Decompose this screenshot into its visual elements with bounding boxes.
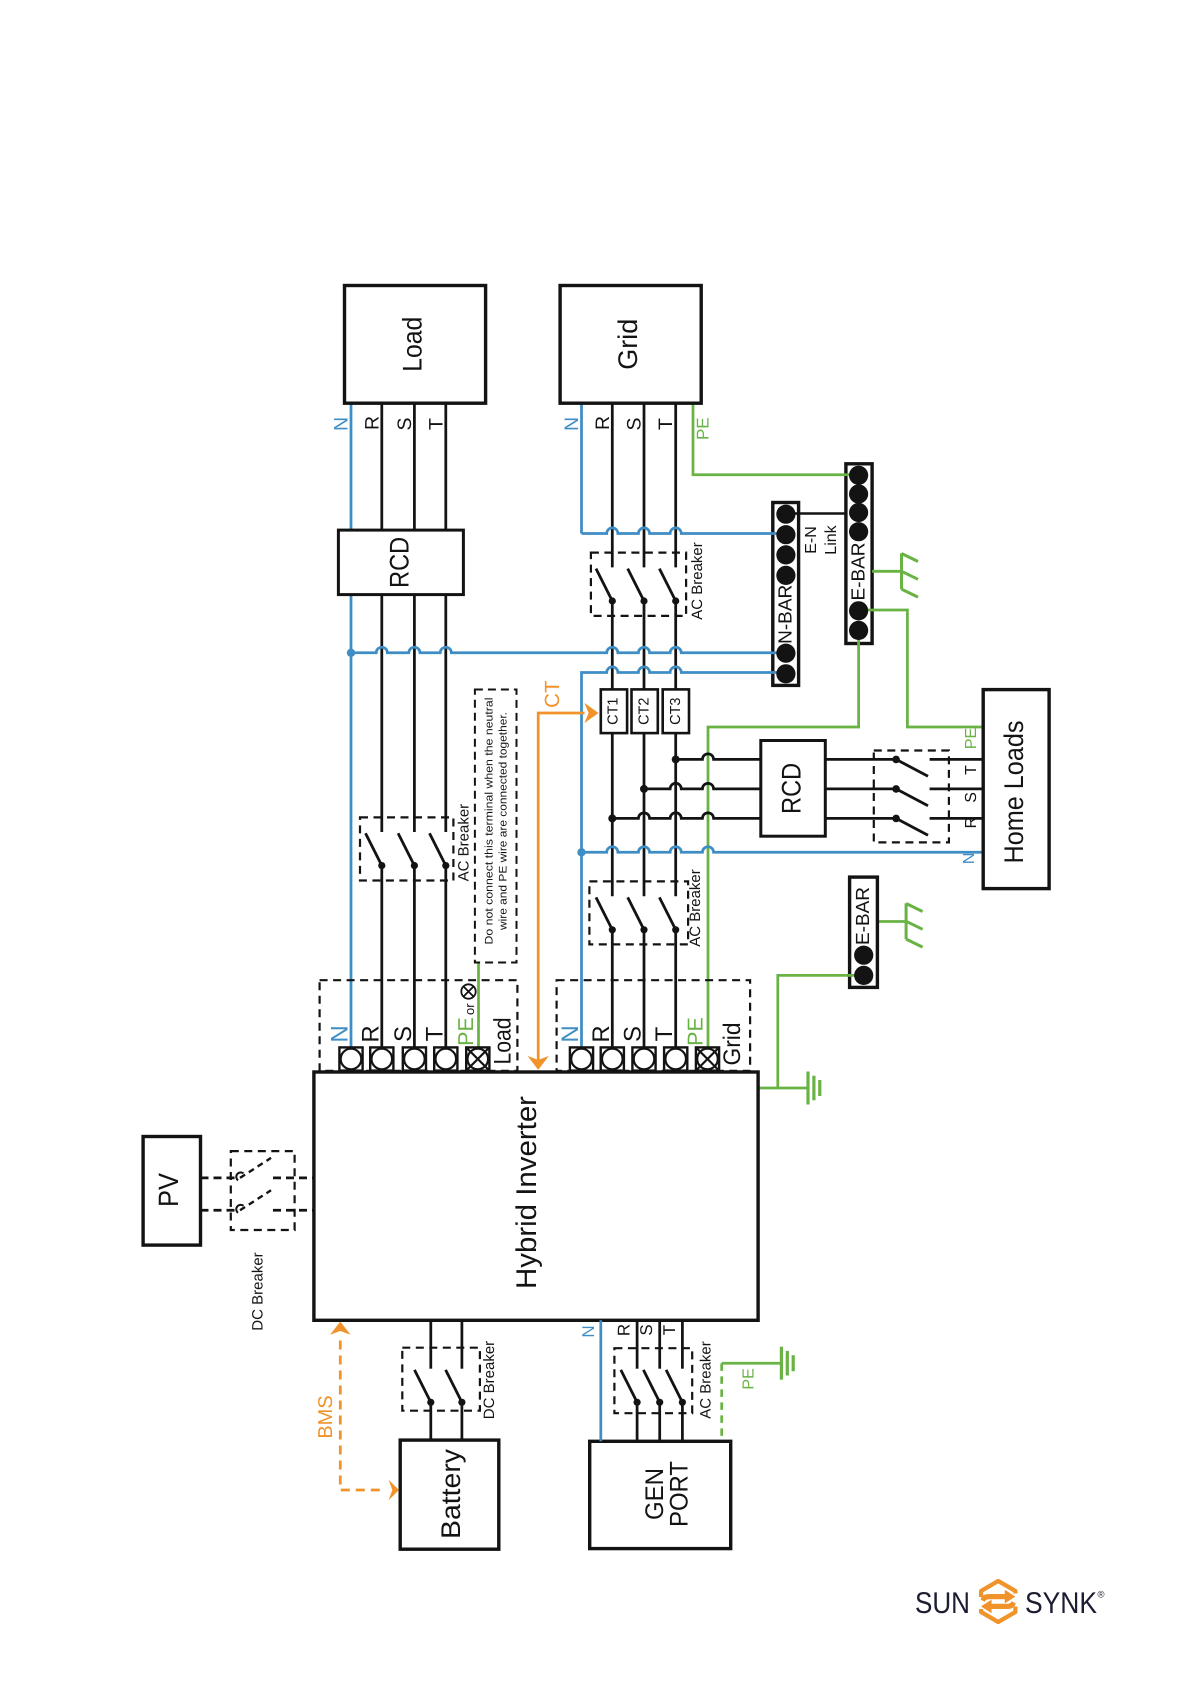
svg-text:DC Breaker: DC Breaker (250, 1252, 267, 1330)
note box (dashed) (475, 690, 517, 963)
svg-text:Do not connect this terminal w: Do not connect this terminal when the ne… (483, 698, 495, 945)
svg-text:T: T (421, 1026, 448, 1041)
wire Grid R (Grid box to AC breaker) (611, 403, 614, 567)
E-BAR 2 dot 1 (854, 946, 873, 965)
svg-text:T: T (651, 1026, 678, 1041)
svg-text:Home Loads: Home Loads (999, 721, 1029, 864)
E-BAR dot 6 (849, 621, 868, 640)
svg-text:PE: PE (454, 1017, 478, 1046)
GEN PORT box (590, 1441, 731, 1548)
breaker blade Load T (430, 833, 446, 865)
breaker blade Home Loads S (896, 789, 928, 806)
wire GEN S upper (658, 1320, 661, 1368)
wire N Load to N-BAR (blue, hops over six phase wires) (351, 647, 786, 653)
E-BAR dot 3 (849, 503, 868, 522)
svg-text:CT1: CT1 (605, 697, 621, 724)
E-BAR 2 dot 2 (854, 966, 873, 985)
AC breaker box Grid lower (589, 881, 688, 944)
CT1 box (601, 689, 627, 733)
wire Battery + upper (429, 1320, 432, 1368)
svg-text:S: S (963, 792, 980, 803)
terminal Grid R (601, 1047, 624, 1070)
wire Load T (AC breaker to inverter Load-T terminal) (444, 866, 447, 1048)
svg-text:T: T (655, 418, 677, 430)
svg-text:Load: Load (398, 317, 428, 372)
breaker pivot Home Loads S (892, 785, 900, 793)
wire Grid T (Grid box to AC breaker) (674, 403, 677, 567)
N-BAR dot 5 (776, 644, 795, 663)
wire Battery - lower (461, 1402, 464, 1440)
terminal Grid S (632, 1047, 655, 1070)
AC breaker blade GEN R (621, 1370, 637, 1402)
wire PE E-BAR 1 to earth (green) (872, 570, 901, 573)
wire Grid S (Grid box to AC breaker) (643, 403, 646, 567)
wire PV - (dashed) (201, 1209, 240, 1212)
svg-text:T: T (425, 418, 447, 430)
wire Battery - upper (461, 1320, 464, 1368)
breaker blade Grid S (lower AC breaker) (628, 897, 644, 929)
logo hexagon with sync arrows (981, 1581, 1015, 1622)
svg-text:Link: Link (823, 524, 840, 554)
svg-text:R: R (357, 1025, 384, 1042)
svg-text:PE: PE (741, 1368, 758, 1389)
junction Grid S tap (640, 785, 648, 793)
DC breaker blade PV + (240, 1158, 271, 1178)
wire Grid N (blue, Grid box down) (580, 403, 583, 533)
junction Grid T tap (672, 755, 680, 763)
svg-text:AC Breaker: AC Breaker (689, 542, 706, 620)
svg-text:N: N (331, 417, 353, 431)
svg-text:RCD: RCD (777, 763, 807, 814)
wire stub PE into E-BAR 2 (848, 974, 864, 977)
wire PE E-BAR 2 to earth (green) (877, 920, 905, 923)
terminal Load S (403, 1047, 426, 1070)
svg-text:S: S (624, 417, 646, 430)
CT2 box (632, 689, 658, 733)
junction blue N Load (347, 649, 355, 657)
svg-text:RCD: RCD (385, 537, 415, 588)
E-BAR dot 4 (849, 522, 868, 541)
breaker blade Grid T (lower AC breaker) (659, 897, 675, 929)
breaker blade Grid R (upper AC breaker) (596, 569, 612, 601)
E-BAR dot 2 (849, 484, 868, 503)
AC breaker blade GEN S (643, 1370, 659, 1402)
DC breaker blade Battery + (415, 1370, 431, 1402)
wire PE inverter net to E-BAR 2 (green) (778, 975, 864, 1088)
svg-text:PV: PV (153, 1173, 184, 1207)
wire stub PE out of E-BAR dot5 (859, 609, 874, 612)
wire Grid T (lower AC breaker to inverter Grid-T terminal) (674, 930, 677, 1048)
wire Load S (Load box through RCD to AC breaker) (413, 403, 416, 832)
wire Home Loads R out (930, 817, 984, 820)
E-BAR terminal bar 2 (850, 877, 878, 987)
wire Grid R (breaker through CT1 down to lower AC breaker) (611, 601, 614, 896)
RCD 1 (Load side) (338, 530, 463, 595)
Home Loads box (983, 690, 1049, 889)
wire PV + (dashed) (201, 1177, 240, 1180)
svg-text:E-BAR: E-BAR (848, 542, 869, 600)
BMS arrowhead up (dart) (330, 1322, 351, 1335)
wire Load S (AC breaker to inverter Load-S terminal) (413, 866, 416, 1048)
svg-text:®: ® (1098, 1590, 1105, 1601)
earth ground at inverter (806, 1072, 809, 1105)
wire PE inverter to earth (green) (758, 1087, 807, 1090)
svg-text:Load: Load (489, 1018, 516, 1065)
svg-text:PE: PE (693, 417, 712, 440)
svg-text:T: T (963, 765, 980, 775)
wire tap R to RCD (hops over S T PE) (612, 813, 896, 819)
wire GEN PE (green dashed) (720, 1363, 723, 1441)
terminal Load T (434, 1047, 457, 1070)
Load box (345, 286, 486, 404)
svg-text:N-BAR: N-BAR (775, 585, 796, 644)
svg-text:S: S (637, 1324, 656, 1335)
svg-text:N: N (579, 1325, 598, 1337)
wire Load N (blue neutral, Load box to inverter Load-N terminal) (350, 403, 353, 1047)
breaker pivot Home Loads R (892, 815, 900, 823)
breaker blade Home Loads T (896, 759, 928, 776)
svg-text:S: S (390, 1026, 417, 1042)
terminal Grid T (664, 1047, 687, 1070)
svg-text:AC Breaker: AC Breaker (456, 804, 473, 882)
wire N to Home Loads (blue, hops over R S T and PE) (582, 847, 984, 853)
wire stub PE Grid into E-BAR (844, 473, 859, 476)
svg-text:T: T (660, 1325, 679, 1335)
svg-text:R: R (588, 1025, 615, 1042)
wire PE note-box to Load-PE terminal (green) (477, 963, 480, 1048)
AC breaker box Home Loads (874, 751, 949, 843)
terminal Grid N (570, 1047, 593, 1070)
terminal Load R (370, 1047, 393, 1070)
svg-text:N: N (961, 853, 978, 865)
Hybrid Inverter box (314, 1072, 758, 1320)
E-BAR terminal bar 1 (846, 464, 872, 644)
wire Home Loads S out (930, 788, 984, 791)
svg-text:Hybrid Inverter: Hybrid Inverter (511, 1095, 543, 1289)
wire Load R (Load box through RCD to AC breaker) (380, 403, 383, 832)
svg-text:S: S (620, 1026, 647, 1042)
N-BAR dot 4 (776, 566, 795, 585)
svg-text:PE: PE (963, 728, 980, 749)
wire stub PE out of E-BAR dot6 (857, 630, 860, 646)
E-N Link wire (786, 512, 859, 515)
wire PE E-BAR to inverter Grid-PE terminal (green) (708, 630, 859, 1047)
wire GEN T lower (681, 1402, 684, 1441)
wire GEN PE to earth (green) (722, 1362, 780, 1365)
svg-text:AC Breaker: AC Breaker (697, 1341, 714, 1419)
wire GEN S lower (658, 1402, 661, 1441)
wire Grid R (lower AC breaker to inverter Grid-R terminal) (611, 930, 614, 1048)
BMS arrowhead right (dart) (389, 1480, 399, 1501)
wire PE E-BAR to Home Loads (green) (859, 610, 984, 727)
Battery DC breaker box (402, 1348, 480, 1411)
wire Grid S (breaker through CT2 down to lower AC breaker) (643, 601, 646, 896)
svg-text:AC Breaker: AC Breaker (687, 869, 704, 947)
svg-text:N: N (561, 417, 583, 431)
wire GEN N (blue) (599, 1320, 602, 1441)
N-BAR terminal bar (773, 503, 799, 686)
wire Load T (Load box through RCD to AC breaker) (444, 403, 447, 832)
earth ground at E-BAR 1 (900, 553, 903, 589)
AC breaker blade GEN T (666, 1370, 682, 1402)
junction blue N Home Loads (577, 848, 585, 856)
wire tap S to RCD (hops over T PE) (644, 783, 896, 789)
terminal Load N (339, 1047, 362, 1070)
breaker blade Load S (398, 833, 414, 865)
terminal Load PE (466, 1047, 489, 1070)
CT arrowhead down (dart) (528, 1056, 549, 1070)
CT3 box (663, 689, 689, 733)
svg-text:DC Breaker: DC Breaker (481, 1341, 498, 1419)
svg-text:R: R (963, 817, 980, 829)
wire N inverter Grid-N to N-BAR (blue, hops over R S T) (582, 667, 786, 1048)
wire stub N Grid into N-BAR (771, 532, 786, 535)
DC breaker blade PV - (240, 1190, 271, 1210)
svg-text:SYNK: SYNK (1025, 1587, 1097, 1620)
breaker blade Home Loads R (896, 818, 928, 835)
svg-text:Battery: Battery (436, 1448, 466, 1539)
svg-text:BMS: BMS (315, 1395, 337, 1438)
AC breaker box Load (360, 817, 453, 880)
wire Home Loads T out (930, 758, 984, 761)
N-BAR dot 1 (776, 505, 795, 524)
wire tap T to RCD (hops over PE) (676, 754, 896, 760)
wire stub N inverter into N-BAR (771, 671, 786, 674)
N-BAR dot 6 (776, 664, 795, 683)
terminal Grid PE (696, 1047, 719, 1070)
AC breaker box Grid upper (591, 553, 686, 616)
E-BAR dot 5 (849, 601, 868, 620)
svg-text:R: R (361, 416, 383, 430)
wire GEN R lower (636, 1402, 639, 1441)
svg-text:E-N: E-N (803, 526, 820, 554)
svg-text:R: R (615, 1324, 634, 1336)
Battery box (400, 1440, 499, 1549)
svg-text:E-BAR: E-BAR (853, 887, 874, 945)
N-BAR dot 2 (776, 525, 795, 544)
terminal group dashed box Grid (557, 980, 751, 1071)
svg-text:PORT: PORT (666, 1461, 694, 1527)
svg-text:Grid: Grid (613, 319, 643, 370)
CT arrowhead right (dart) (584, 703, 598, 723)
svg-text:SUN: SUN (915, 1587, 970, 1620)
junction Grid R tap (608, 814, 616, 822)
wire GEN R upper (636, 1320, 639, 1368)
crossed-circle symbol (461, 984, 475, 998)
wire GEN T upper (681, 1320, 684, 1368)
N-BAR dot 3 (776, 545, 795, 564)
svg-text:N: N (557, 1025, 584, 1042)
wire Grid T (breaker through CT3 down to lower AC breaker) (674, 601, 677, 896)
breaker blade Grid T (upper AC breaker) (659, 569, 675, 601)
wire Load R (AC breaker to inverter Load-R terminal) (380, 866, 383, 1048)
svg-text:wire and PE wire are connected: wire and PE wire are connected together. (498, 712, 510, 931)
svg-text:CT3: CT3 (668, 697, 684, 724)
wire N Grid to N-BAR (blue, hops over R S T) (582, 528, 786, 534)
svg-text:CT2: CT2 (637, 697, 653, 724)
Grid box (560, 286, 701, 404)
svg-text:S: S (394, 417, 416, 430)
terminal group dashed box Load (320, 980, 518, 1071)
RCD 2 (Home Loads) (761, 741, 826, 837)
BMS wire (orange dashed) (340, 1341, 384, 1491)
wire stub N Load into N-BAR (771, 651, 786, 654)
GEN AC breaker box (614, 1348, 692, 1413)
breaker blade Load R (366, 833, 382, 865)
breaker blade Grid R (lower AC breaker) (596, 897, 612, 929)
earth ground at E-BAR 2 (905, 903, 908, 939)
svg-text:R: R (592, 416, 614, 430)
breaker pivot Home Loads T (892, 756, 900, 764)
PV box (143, 1137, 200, 1246)
earth ground at GEN PE (780, 1347, 783, 1380)
wire Grid S (lower AC breaker to inverter Grid-S terminal) (643, 930, 646, 1048)
wire Battery + lower (429, 1402, 432, 1440)
wire PE Grid to E-BAR (green) (693, 403, 853, 475)
svg-text:N: N (327, 1025, 354, 1042)
E-BAR dot 1 (849, 466, 868, 485)
breaker blade Grid S (upper AC breaker) (628, 569, 644, 601)
svg-text:CT: CT (541, 680, 564, 708)
DC breaker blade Battery - (446, 1370, 462, 1402)
svg-text:or: or (462, 1003, 477, 1015)
svg-text:PE: PE (684, 1017, 708, 1046)
CT sense wire (orange) (538, 713, 584, 1061)
PV DC breaker box (231, 1151, 295, 1230)
svg-text:Grid: Grid (719, 1023, 746, 1066)
